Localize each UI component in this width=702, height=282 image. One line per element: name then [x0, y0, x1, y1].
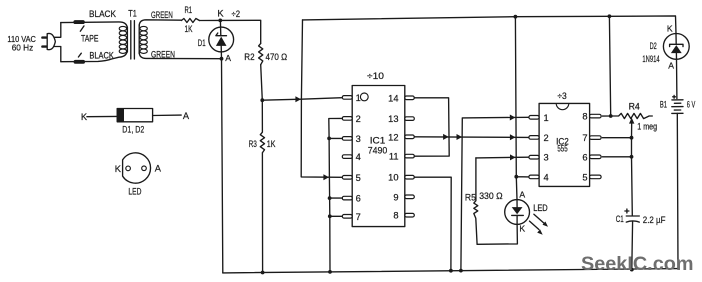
- svg-text:A: A: [519, 189, 525, 199]
- transformer T1 primary winding: [119, 26, 127, 53]
- svg-text:7: 7: [582, 133, 587, 143]
- wire D2 to battery: [676, 59, 678, 99]
- svg-text:A: A: [668, 61, 674, 71]
- svg-text:÷3: ÷3: [557, 91, 566, 101]
- svg-text:A: A: [155, 164, 162, 174]
- label IC1 7490: [368, 136, 388, 157]
- resistor R3: [260, 100, 264, 272]
- svg-text:8: 8: [582, 112, 587, 122]
- svg-text:13: 13: [388, 114, 398, 124]
- crossover arrow (pin 3 line): [510, 154, 516, 160]
- AC plug: [41, 23, 61, 62]
- wire secondary top: [139, 20, 181, 26]
- svg-text:D2: D2: [650, 41, 657, 51]
- svg-text:B1: B1: [660, 100, 667, 110]
- svg-text:T1: T1: [128, 8, 137, 18]
- svg-text:2: 2: [544, 133, 549, 143]
- svg-text:9: 9: [393, 192, 398, 202]
- top supply rail: [303, 16, 677, 34]
- svg-text:2.2 µF: 2.2 µF: [643, 215, 666, 225]
- svg-text:TAPE: TAPE: [81, 34, 99, 44]
- svg-text:1K: 1K: [267, 139, 276, 149]
- IC2 pin numbers left: [544, 113, 549, 183]
- svg-text:R1: R1: [185, 5, 193, 15]
- LED indicator: [505, 200, 530, 225]
- IC1 pin stubs right 14-8: [405, 96, 415, 217]
- svg-text:4: 4: [356, 152, 361, 162]
- wire R2 to junction: [261, 65, 263, 101]
- node IC2 pin 4 junction: [514, 175, 518, 179]
- svg-text:3: 3: [356, 134, 361, 144]
- wire secondary bottom: [139, 52, 221, 59]
- LED emission arrows: [530, 214, 549, 235]
- svg-text:K: K: [519, 224, 525, 234]
- IC1 ground bus pins 2,3,6,7: [329, 118, 343, 272]
- IC1 pin 1 index circle: [360, 93, 368, 101]
- IC2 pin numbers right: [582, 112, 587, 183]
- resistor R4: [611, 113, 653, 118]
- capacitor C1: [625, 209, 639, 270]
- wire VCC to IC2 pin 4 and LED anode: [515, 17, 529, 200]
- svg-text:12: 12: [388, 132, 398, 142]
- tape mark top: [73, 20, 84, 24]
- svg-text:7490: 7490: [368, 146, 388, 157]
- legend LED bottom view: [123, 153, 151, 183]
- wire primary bottom: [61, 49, 127, 62]
- svg-text:K: K: [81, 112, 88, 122]
- tape mark bottom: [74, 60, 85, 64]
- svg-text:11: 11: [389, 152, 399, 162]
- svg-text:K: K: [217, 8, 224, 18]
- crossover arrow (pin 1 feed): [295, 96, 301, 102]
- wire IC1 pin 14 to pin 11: [414, 98, 449, 156]
- IC1 pin stubs left 1-7: [342, 96, 352, 219]
- IC1 7490 body: [352, 86, 405, 227]
- wire wiper to pins 7,6 and C1: [602, 138, 632, 216]
- label 110 VAC 60 Hz: [7, 34, 36, 53]
- IC2 555 body: [539, 103, 590, 186]
- svg-text:R4: R4: [629, 102, 640, 112]
- label IC2 555: [556, 136, 569, 153]
- svg-text:LED: LED: [128, 187, 141, 197]
- wire IC1 pin 12 to IC2 pin 2: [414, 136, 529, 139]
- wire primary top: [61, 22, 128, 29]
- wire junction to IC1 pin 1: [262, 98, 342, 101]
- svg-text:R2: R2: [244, 52, 254, 62]
- node A junction: [220, 57, 224, 61]
- svg-text:GREEN: GREEN: [151, 10, 173, 20]
- wire IC1 pin 10 to ground rail: [414, 177, 451, 271]
- R4 wiper arrow: [631, 122, 633, 138]
- svg-text:A: A: [183, 111, 190, 121]
- svg-text:D1, D2: D1, D2: [122, 125, 144, 135]
- battery B1: [672, 95, 683, 268]
- svg-text:1N914: 1N914: [642, 54, 659, 64]
- svg-text:1: 1: [544, 113, 549, 123]
- IC2 pin stubs right 8-5: [590, 114, 602, 178]
- svg-text:8: 8: [393, 211, 398, 221]
- wire D1 anode to ground rail: [222, 59, 223, 273]
- transformer T1 core: [131, 21, 135, 59]
- svg-text:1 meg: 1 meg: [637, 121, 657, 131]
- wire R1 to node K to R2: [199, 20, 260, 43]
- svg-text:7: 7: [356, 212, 361, 222]
- svg-text:÷10: ÷10: [367, 71, 384, 81]
- svg-text:÷2: ÷2: [232, 9, 241, 19]
- svg-text:3: 3: [544, 153, 549, 163]
- svg-text:K: K: [667, 24, 673, 34]
- svg-text:14: 14: [388, 93, 398, 103]
- svg-text:555: 555: [557, 144, 567, 154]
- node R2/R3 junction: [260, 98, 264, 102]
- node R4 left junction: [609, 114, 613, 118]
- tape pointer arrow top: [80, 26, 84, 31]
- node K: [218, 19, 222, 23]
- svg-text:6: 6: [356, 194, 361, 204]
- diode D1: [209, 20, 234, 58]
- svg-text:BLACK: BLACK: [89, 9, 117, 19]
- svg-text:5: 5: [356, 173, 361, 183]
- svg-text:330 Ω: 330 Ω: [479, 191, 503, 201]
- wire LED cathode to R5: [477, 224, 517, 244]
- svg-text:1K: 1K: [185, 24, 193, 34]
- svg-text:GREEN: GREEN: [151, 50, 175, 60]
- svg-text:LED: LED: [533, 203, 548, 213]
- rail junction at VCC drop: [514, 15, 518, 19]
- svg-text:1: 1: [356, 93, 361, 103]
- svg-text:5: 5: [582, 172, 587, 182]
- crossover arrows on pin 12 line: [443, 134, 449, 140]
- svg-text:R5: R5: [465, 192, 476, 202]
- svg-text:10: 10: [388, 173, 398, 183]
- wire VCC vertical left: [301, 20, 342, 177]
- wire rail to IC2 pin 8: [602, 16, 610, 116]
- svg-text:60 Hz: 60 Hz: [12, 43, 34, 53]
- svg-text:SeekIC.com: SeekIC.com: [581, 253, 694, 275]
- svg-text:6 V: 6 V: [687, 100, 696, 110]
- wire IC2 pin 1 to ground: [461, 117, 529, 270]
- IC2 pin stubs left 1-4: [529, 116, 539, 179]
- resistor R2: [259, 43, 263, 64]
- IC1 pin numbers left: [356, 93, 361, 222]
- resistor R1: [181, 19, 199, 23]
- svg-text:K: K: [115, 164, 122, 174]
- IC1 pin numbers right: [388, 93, 398, 220]
- rail junction at IC2 pin 8 drop: [608, 14, 612, 18]
- wire R5 top to IC2 pin 3: [476, 156, 529, 159]
- legend diode package D1,D2: [87, 109, 181, 122]
- svg-text:R3: R3: [249, 139, 257, 149]
- IC2 index notch: [556, 103, 569, 109]
- svg-text:D1: D1: [198, 38, 206, 48]
- svg-text:6: 6: [582, 152, 587, 162]
- svg-text:470 Ω: 470 Ω: [266, 52, 288, 62]
- crossover arrow (pin 1 IC2): [510, 115, 516, 121]
- transformer T1 secondary winding: [139, 25, 147, 54]
- svg-text:A: A: [225, 53, 231, 63]
- crossover arrow (pin 5 feed): [323, 174, 329, 180]
- svg-text:C1: C1: [616, 214, 624, 224]
- diode D2: [663, 34, 689, 60]
- resistor R5: [474, 158, 478, 244]
- bottom ground rail: [223, 269, 678, 273]
- svg-text:4: 4: [544, 172, 549, 182]
- svg-text:2: 2: [356, 114, 361, 124]
- tape pointer arrow bottom: [78, 53, 81, 57]
